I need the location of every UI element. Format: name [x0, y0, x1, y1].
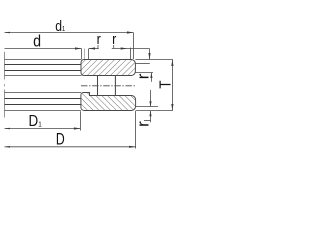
r dim #4 (bottom-right corner of housing washer, up arrow)	[144, 111, 152, 122]
dimension line D	[5, 146, 136, 148]
left elevation lines, housing washer	[5, 93, 82, 111]
r dim #4a (down arrow onto side tangent ext)	[149, 90, 151, 107]
extension line at x 88.8	[88, 49, 90, 59]
svg-text:r: r	[97, 30, 102, 47]
shaft washer (top, section, hatched)	[81, 60, 135, 76]
svg-text:T: T	[157, 80, 174, 88]
left elevation lines, shaft washer	[5, 60, 82, 76]
svg-text:d: d	[55, 18, 62, 34]
roller pitch line (dash-dot)	[81, 85, 137, 87]
housing washer (bottom, section, hatched)	[81, 93, 136, 111]
r dim #3 (bottom-right corner of shaft washer, up arrow)	[135, 73, 153, 82]
T dimension line with arrows	[171, 60, 173, 111]
svg-text:1: 1	[38, 121, 42, 129]
svg-text:r: r	[112, 30, 117, 47]
roller (between washers)	[98, 76, 116, 96]
svg-text:D: D	[56, 131, 65, 149]
r ext bottom-right side tangent	[136, 106, 158, 108]
svg-text:r: r	[134, 121, 153, 127]
T extension lines	[135, 59, 173, 61]
dimension line d	[5, 47, 82, 49]
extension line D1 (housing bore), down	[79, 111, 81, 130]
dimension line d1	[5, 31, 134, 33]
dimension line D1	[5, 127, 81, 129]
extension line r inner tangent	[84, 49, 86, 60]
svg-text:D: D	[29, 113, 39, 130]
extension line d (bore edge)	[81, 49, 83, 60]
extension line D (outer), down	[135, 111, 137, 149]
svg-text:1: 1	[62, 26, 66, 34]
svg-text:r: r	[134, 73, 153, 79]
axis centerline (dash-dot vertical, left)	[4, 52, 6, 118]
extension line d1 (washer outer edge)	[132, 33, 134, 60]
extension line d1 corner tangent	[130, 48, 132, 59]
svg-text:d: d	[33, 32, 41, 50]
r dim #2 (leader right, down arrow to washer top)	[112, 45, 151, 60]
r ext top-right side tangent	[135, 63, 149, 65]
r dim #1 (arrow pointing left at x=88.8)	[89, 45, 99, 50]
